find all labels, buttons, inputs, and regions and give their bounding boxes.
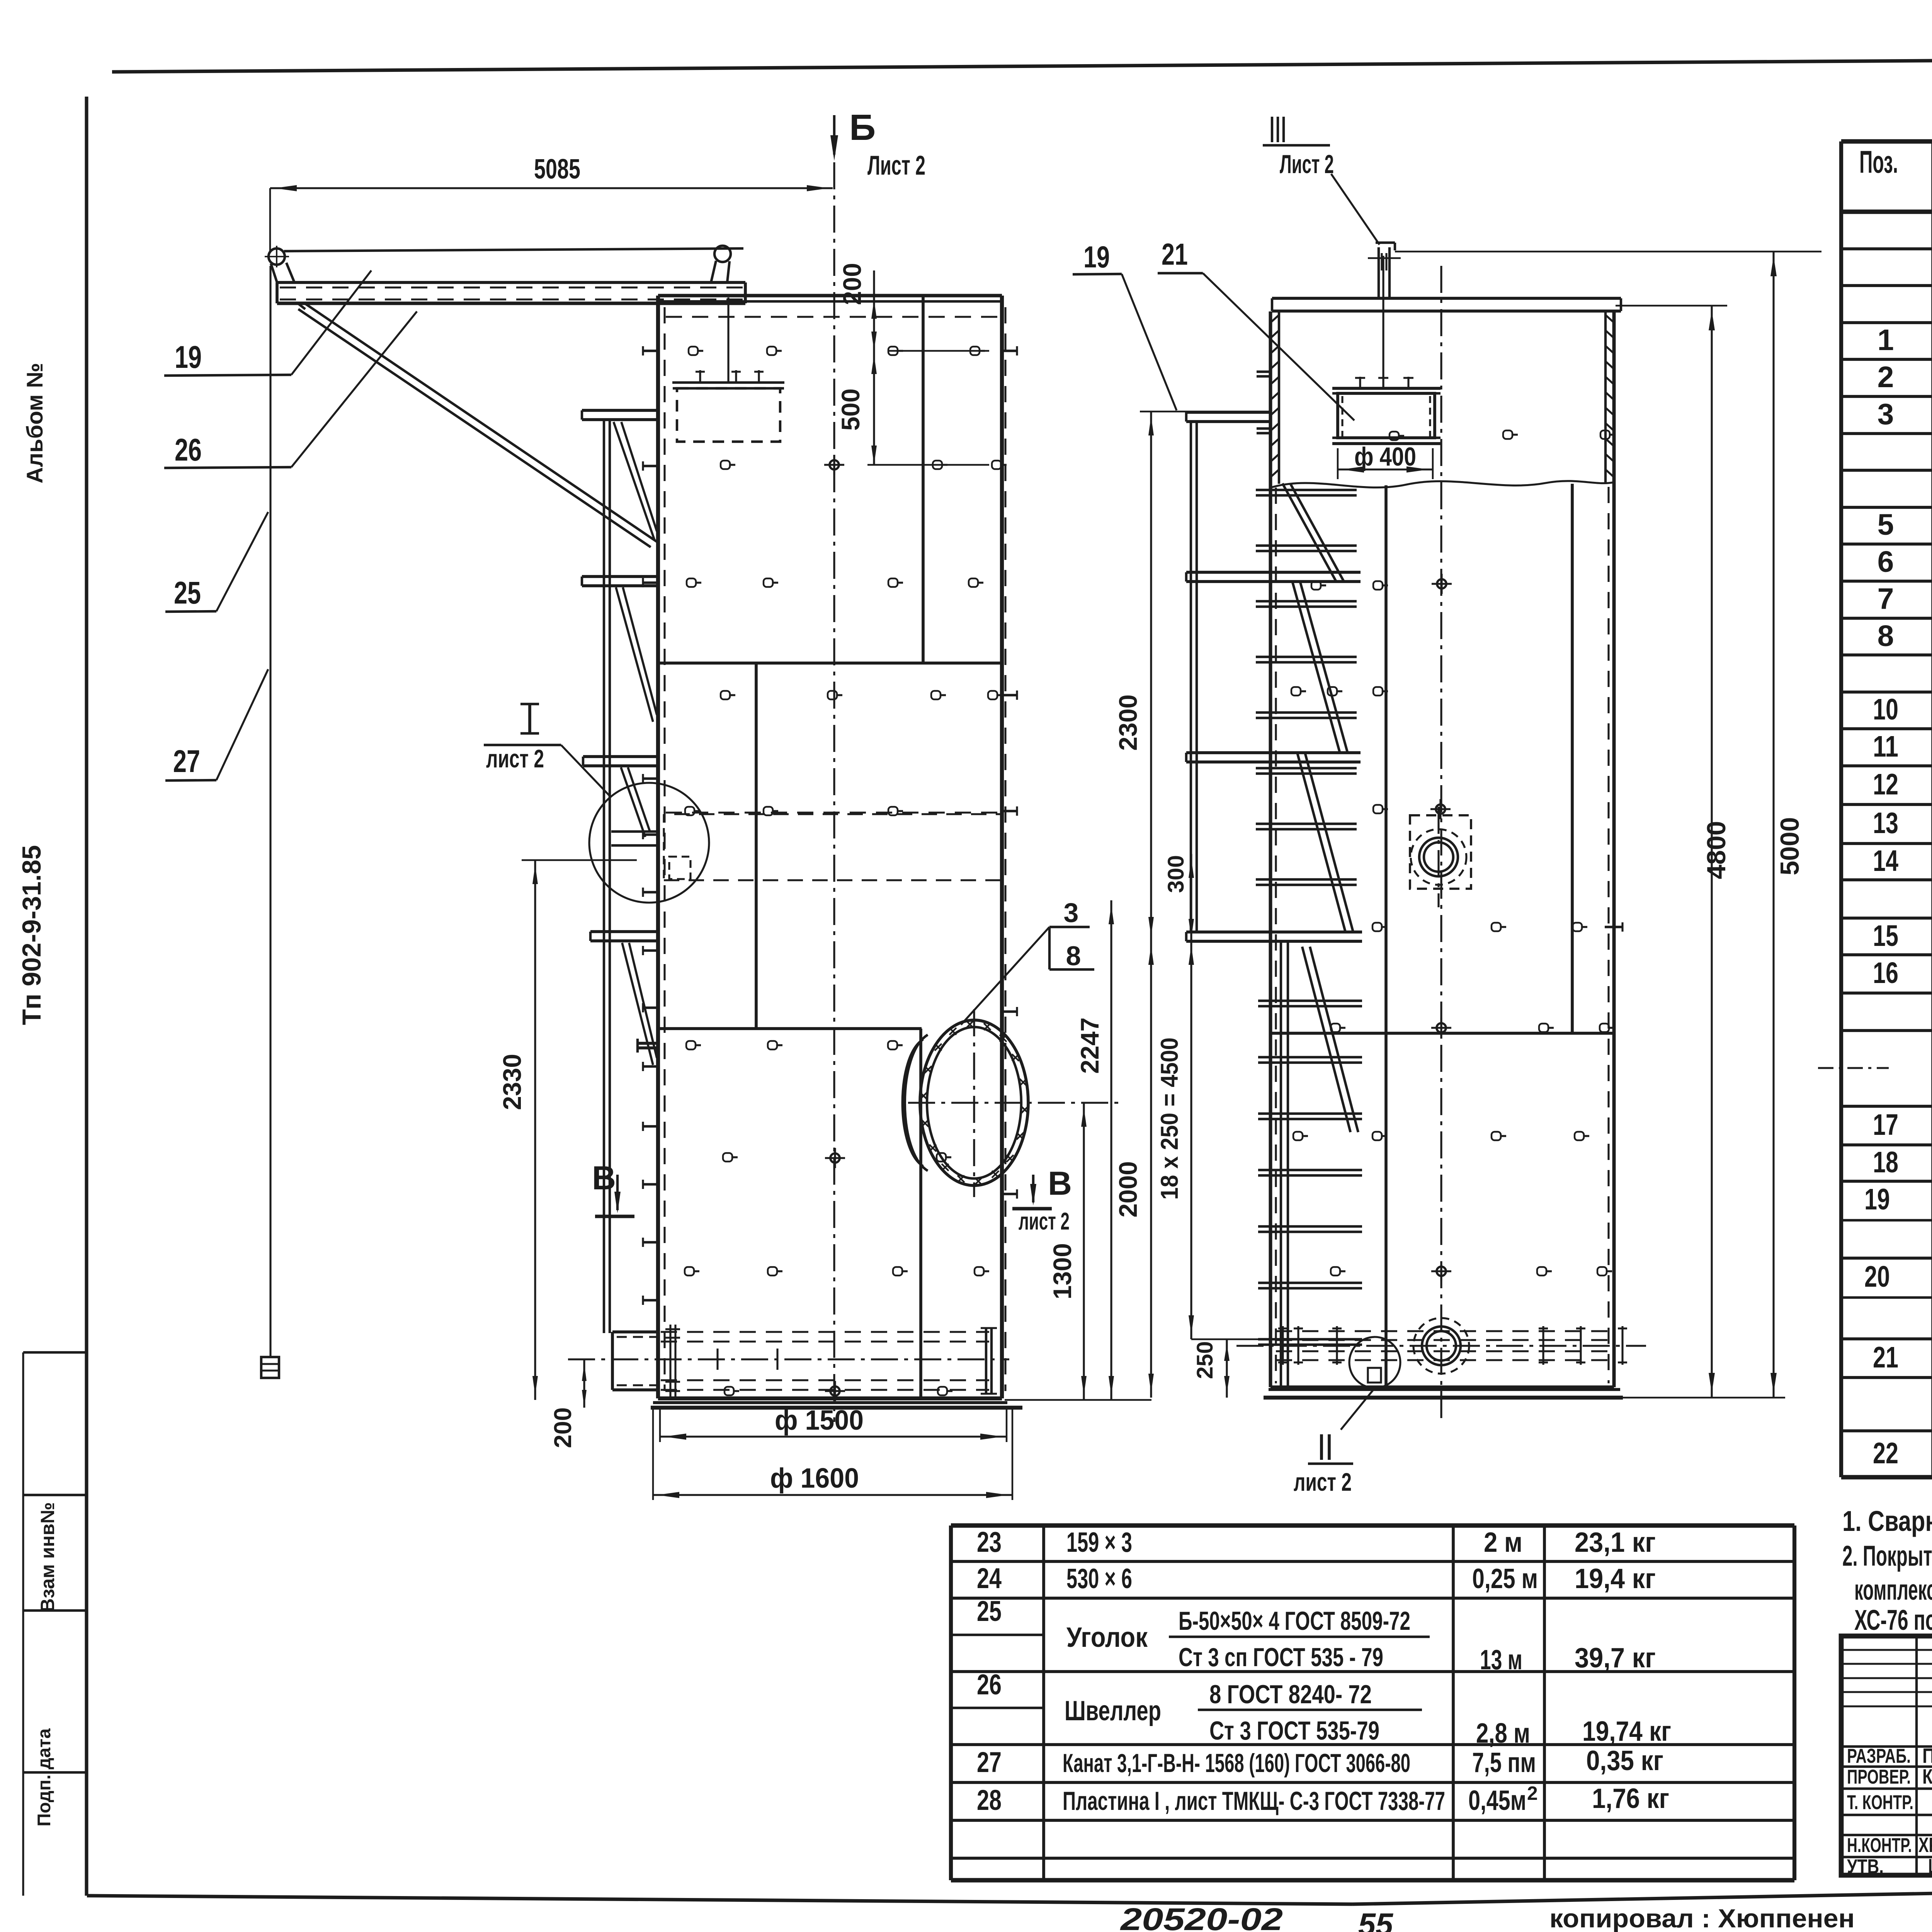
- svg-text:Тп 902-9-31.85: Тп 902-9-31.85: [17, 845, 46, 1025]
- svg-text:39,7 кг: 39,7 кг: [1575, 1643, 1656, 1673]
- svg-text:16: 16: [1873, 956, 1898, 990]
- svg-text:лист 2: лист 2: [1294, 1468, 1352, 1496]
- svg-text:2247: 2247: [1076, 1017, 1104, 1074]
- svg-text:2. Покрытие наружных поверхн: 2. Покрытие наружных поверхностей- компл…: [1842, 1539, 1932, 1572]
- svg-text:2000: 2000: [1114, 1161, 1142, 1218]
- svg-text:ПУЧКОВА: ПУЧКОВА: [1922, 1744, 1932, 1767]
- svg-text:Пластина I , лист ТМКЩ- С-3: Пластина I , лист ТМКЩ- С-3 ГОСТ 7338-77: [1063, 1787, 1445, 1816]
- svg-text:8 ГОСТ 8240- 72: 8 ГОСТ 8240- 72: [1209, 1680, 1372, 1709]
- svg-text:300: 300: [1163, 855, 1189, 893]
- svg-text:23,1 кг: 23,1 кг: [1575, 1527, 1656, 1558]
- svg-text:Б: Б: [849, 107, 876, 148]
- svg-text:25: 25: [977, 1595, 1002, 1627]
- svg-text:0,25 м: 0,25 м: [1472, 1563, 1538, 1594]
- svg-text:5: 5: [1878, 508, 1894, 541]
- svg-text:18 x 250 = 4500: 18 x 250 = 4500: [1156, 1037, 1183, 1200]
- svg-text:21: 21: [1873, 1341, 1898, 1374]
- svg-text:2 м: 2 м: [1484, 1527, 1522, 1558]
- svg-text:18: 18: [1873, 1146, 1898, 1179]
- svg-text:159 × 3: 159 × 3: [1066, 1527, 1132, 1558]
- svg-text:55: 55: [1358, 1907, 1394, 1932]
- svg-text:В: В: [592, 1160, 616, 1197]
- svg-text:19: 19: [1864, 1183, 1890, 1216]
- svg-text:Ст 3 сп ГОСТ 535 - 79: Ст 3 сп ГОСТ 535 - 79: [1179, 1643, 1383, 1672]
- svg-text:250: 250: [1192, 1341, 1218, 1379]
- svg-text:27: 27: [977, 1746, 1002, 1778]
- svg-text:копировал : Хюппенен: копировал : Хюппенен: [1549, 1904, 1855, 1932]
- svg-text:14: 14: [1873, 844, 1898, 878]
- svg-text:23: 23: [977, 1526, 1002, 1558]
- svg-text:13: 13: [1873, 806, 1898, 840]
- svg-text:28: 28: [977, 1784, 1002, 1816]
- svg-text:В: В: [1048, 1165, 1072, 1202]
- svg-text:500: 500: [837, 388, 865, 430]
- svg-text:Поз.: Поз.: [1859, 145, 1898, 180]
- svg-text:2300: 2300: [1114, 694, 1142, 751]
- svg-text:24: 24: [977, 1562, 1002, 1594]
- svg-text:5085: 5085: [534, 154, 580, 185]
- svg-text:2,8 м: 2,8 м: [1476, 1718, 1530, 1749]
- svg-text:Т. КОНТР.: Т. КОНТР.: [1847, 1791, 1913, 1814]
- svg-text:7: 7: [1878, 582, 1894, 616]
- svg-text:ф 1500: ф 1500: [775, 1405, 864, 1436]
- svg-text:530 × 6: 530 × 6: [1066, 1563, 1132, 1594]
- svg-text:17: 17: [1873, 1108, 1898, 1141]
- svg-text:8: 8: [1066, 941, 1081, 971]
- svg-text:Канат 3,1-Г-В-Н- 1568 (160) Г: Канат 3,1-Г-В-Н- 1568 (160) ГОСТ 3066-80: [1063, 1749, 1410, 1778]
- svg-text:21: 21: [1162, 237, 1188, 271]
- svg-text:200: 200: [549, 1407, 577, 1448]
- svg-text:22: 22: [1873, 1437, 1898, 1470]
- svg-text:1,76 кг: 1,76 кг: [1592, 1783, 1669, 1814]
- svg-text:1300: 1300: [1048, 1243, 1077, 1299]
- svg-text:7,5 пм: 7,5 пм: [1472, 1747, 1536, 1778]
- svg-text:Лист 2: Лист 2: [867, 150, 925, 180]
- svg-text:Лист 2: Лист 2: [1280, 150, 1334, 179]
- svg-text:1: 1: [1878, 323, 1894, 357]
- svg-text:КРЕМНЕВ: КРЕМНЕВ: [1922, 1765, 1932, 1788]
- svg-text:Ст 3 ГОСТ 535-79: Ст 3 ГОСТ 535-79: [1209, 1716, 1379, 1745]
- svg-text:РАЗРАБ.: РАЗРАБ.: [1847, 1745, 1911, 1767]
- svg-text:Уголок: Уголок: [1066, 1622, 1148, 1653]
- svg-text:Подп. дата: Подп. дата: [34, 1728, 54, 1827]
- svg-text:ХРОМИХИНА: ХРОМИХИНА: [1918, 1833, 1932, 1857]
- svg-text:20: 20: [1864, 1260, 1890, 1293]
- svg-text:12: 12: [1873, 768, 1898, 801]
- svg-text:15: 15: [1873, 919, 1898, 952]
- svg-text:20520-02: 20520-02: [1120, 1902, 1283, 1932]
- svg-text:Альбом №: Альбом №: [22, 363, 48, 484]
- svg-text:2: 2: [1527, 1782, 1538, 1804]
- svg-text:25: 25: [174, 575, 201, 611]
- svg-text:1. Сварные швы по ГОСТ: 1. Сварные швы по ГОСТ 5264-80: [1842, 1505, 1932, 1537]
- svg-text:Н.КОНТР.: Н.КОНТР.: [1847, 1834, 1912, 1857]
- svg-text:8: 8: [1878, 619, 1894, 653]
- svg-text:26: 26: [977, 1668, 1002, 1701]
- svg-text:ф 1600: ф 1600: [770, 1463, 859, 1494]
- svg-text:0,45м: 0,45м: [1468, 1785, 1526, 1816]
- svg-text:лист 2: лист 2: [1019, 1208, 1070, 1235]
- svg-text:ШИПКОВ: ШИПКОВ: [1928, 1855, 1932, 1878]
- svg-text:4800: 4800: [1702, 821, 1731, 879]
- svg-text:5000: 5000: [1776, 817, 1804, 876]
- svg-text:19: 19: [175, 340, 202, 375]
- svg-text:Взам инв№: Взам инв№: [37, 1502, 58, 1612]
- svg-text:11: 11: [1873, 730, 1898, 763]
- svg-text:10: 10: [1873, 693, 1898, 726]
- svg-text:2330: 2330: [498, 1054, 526, 1110]
- svg-text:0,35 кг: 0,35 кг: [1586, 1745, 1663, 1776]
- svg-text:3: 3: [1878, 398, 1894, 431]
- svg-text:200: 200: [838, 263, 866, 305]
- svg-text:26: 26: [175, 432, 202, 468]
- svg-text:27: 27: [173, 744, 200, 779]
- svg-text:13 м: 13 м: [1480, 1645, 1522, 1675]
- svg-text:ПРОВЕР.: ПРОВЕР.: [1847, 1766, 1911, 1788]
- svg-text:УТВ.: УТВ.: [1847, 1855, 1884, 1878]
- svg-text:2: 2: [1878, 361, 1894, 394]
- svg-text:Б-50×50× 4 ГОСТ 8509-72: Б-50×50× 4 ГОСТ 8509-72: [1179, 1607, 1410, 1636]
- svg-text:6: 6: [1878, 545, 1894, 578]
- svg-text:19: 19: [1083, 240, 1110, 274]
- svg-text:лист 2: лист 2: [486, 745, 544, 773]
- svg-text:ф 400: ф 400: [1354, 442, 1416, 471]
- svg-text:19,4 кг: 19,4 кг: [1575, 1563, 1656, 1594]
- svg-text:19,74 кг: 19,74 кг: [1582, 1716, 1671, 1747]
- svg-text:комплексное четырехслойное гр: комплексное четырехслойное грунтом ХС-01…: [1854, 1573, 1932, 1606]
- svg-text:Швеллер: Швеллер: [1065, 1696, 1161, 1726]
- svg-text:3: 3: [1064, 898, 1079, 928]
- svg-text:ХС-76 по ГОСТ 9355-81: ХС-76 по ГОСТ 9355-81: [1854, 1604, 1932, 1636]
